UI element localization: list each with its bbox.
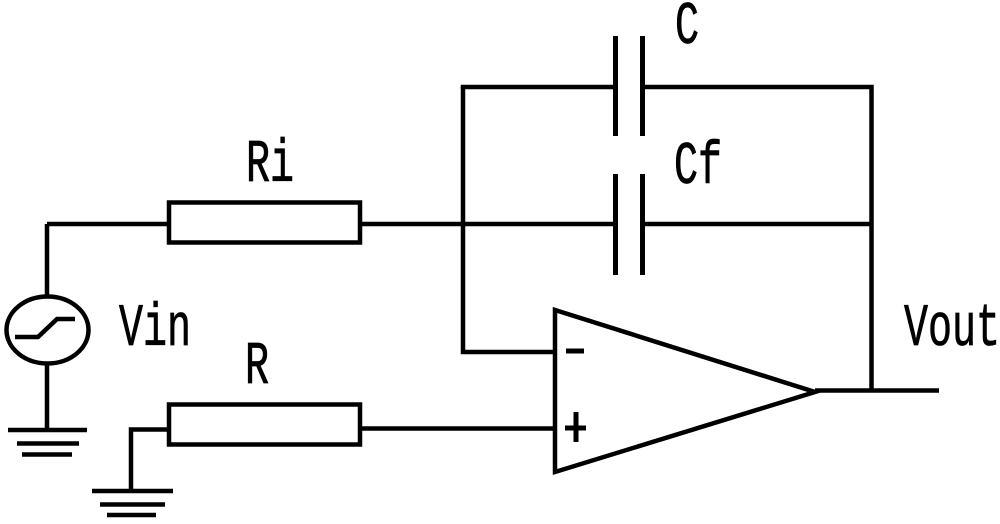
capacitor C	[616, 36, 643, 136]
svg-text:Ri: Ri	[246, 133, 294, 200]
wire ground branch to resistor R	[131, 430, 167, 491]
wire mid rail (Ri to Cf left plate)	[362, 222, 613, 227]
wire inverting branch (down from top rail to op-amp minus input)	[463, 87, 555, 352]
wire mid rail left (source to Ri)	[47, 222, 167, 227]
wire mid rail (Cf right plate to right rail)	[645, 222, 872, 227]
label Vin	[119, 297, 191, 364]
wire output	[815, 388, 939, 393]
resistor Ri	[169, 203, 360, 243]
resistor R	[169, 405, 360, 445]
minus input symbol	[566, 349, 584, 354]
wire top-right segment	[645, 87, 872, 224]
label Vout	[904, 297, 1000, 364]
capacitor Cf	[616, 174, 643, 275]
op-amp U1	[555, 310, 815, 472]
label Ri	[246, 133, 294, 200]
wire source Vin to ground	[45, 364, 50, 430]
wire top-left segment (feedback top rail)	[463, 87, 613, 89]
svg-text:R: R	[245, 335, 269, 402]
wire right rail down to output	[869, 224, 874, 391]
ground (below R input)	[92, 491, 173, 515]
svg-text:C: C	[675, 0, 699, 62]
label R	[245, 335, 269, 402]
svg-text:Cf: Cf	[674, 135, 722, 202]
label C	[675, 0, 699, 62]
svg-text:Vout: Vout	[904, 297, 1000, 364]
wire from mid rail down to source Vin	[45, 224, 50, 296]
label Cf	[674, 135, 722, 202]
ground (below Vin)	[8, 430, 87, 455]
plus input symbol	[565, 426, 586, 431]
source Vin	[7, 297, 89, 364]
wire R to op-amp plus input	[362, 426, 555, 431]
svg-text:Vin: Vin	[119, 297, 191, 364]
